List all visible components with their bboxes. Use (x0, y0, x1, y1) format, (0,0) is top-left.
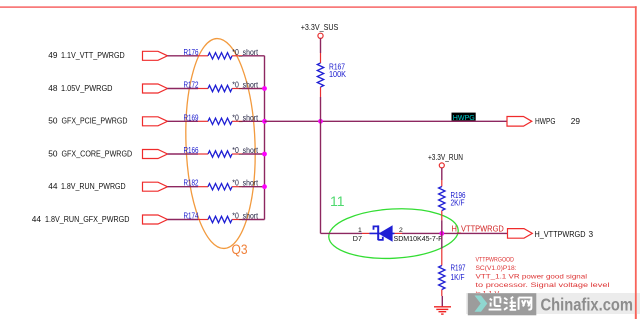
svg-text:50: 50 (48, 148, 58, 158)
port 44 1.8V_RUN_GFX_PWRGD (32, 214, 168, 224)
orange annotation ellipse Q3 (182, 37, 258, 257)
port 48 1.05V_PWRGD (48, 83, 167, 93)
svg-text:R172: R172 (184, 80, 199, 90)
wire row2 left (168, 88, 199, 90)
wire row5 left (168, 186, 199, 188)
svg-text:100K: 100K (329, 69, 346, 79)
wire row1 left (168, 55, 199, 57)
resistor R182 (184, 178, 259, 190)
svg-text:VTT_1.1 VR power good signal: VTT_1.1 VR power good signal (476, 274, 588, 281)
annotation note VTTPWRGOOD (red text) (476, 257, 611, 298)
resistor R166 (184, 145, 259, 157)
power +3.3V_RUN (428, 152, 463, 168)
wire row1 to bus (242, 55, 265, 57)
junction bus row3 (262, 119, 267, 124)
svg-text:1.05V_PWRGD: 1.05V_PWRGD (61, 83, 113, 93)
port 49 1.1V_VTT_PWRGD (48, 50, 167, 60)
net label HWPG (highlighted) (452, 113, 476, 122)
wire vertical from junction to diode row (320, 121, 322, 233)
green annotation ellipse around D7 (328, 193, 460, 262)
watermark chinafix (466, 293, 640, 319)
svg-text:H_VTTPWRGD: H_VTTPWRGD (452, 225, 505, 234)
wire R167 to junction (320, 97, 322, 121)
svg-text:44: 44 (48, 181, 58, 191)
resistor R176 (184, 47, 259, 59)
svg-text:R182: R182 (184, 178, 199, 188)
wire RUN to R196 (441, 168, 443, 180)
svg-text:48: 48 (48, 83, 58, 93)
diode D7 SDM10K45-7-F (353, 225, 443, 243)
svg-text:SC(V1.0)P18:: SC(V1.0)P18: (476, 265, 517, 272)
wire row4 to bus (242, 153, 265, 155)
resistor R196 2K/F (439, 180, 466, 220)
wire HWPG horizontal (265, 120, 508, 122)
svg-text:R176: R176 (184, 47, 199, 57)
svg-text:50: 50 (48, 116, 58, 126)
svg-text:44: 44 (32, 214, 42, 224)
svg-text:+3.3V_SUS: +3.3V_SUS (301, 22, 339, 32)
svg-text:29: 29 (571, 116, 581, 126)
wire row3 to bus (242, 120, 265, 122)
port HWPG 29 (507, 116, 580, 126)
junction bus row4 (262, 152, 267, 157)
svg-text:SDM10K45-7-F: SDM10K45-7-F (394, 236, 443, 243)
wire right vertical bus (264, 56, 266, 220)
svg-text:2K/F: 2K/F (451, 197, 465, 207)
resistor R169 (184, 112, 259, 124)
svg-text:GFX_PCIE_PWRGD: GFX_PCIE_PWRGD (62, 116, 128, 126)
svg-text:GFX_CORE_PWRGD: GFX_CORE_PWRGD (62, 148, 133, 158)
junction R167 / HWPG (318, 119, 323, 124)
junction bus row5 (262, 184, 267, 189)
power +3.3V_SUS (301, 22, 339, 38)
wire diode row left (321, 232, 363, 234)
wire row2 to bus (242, 88, 265, 90)
svg-text:1.8V_RUN_GFX_PWRGD: 1.8V_RUN_GFX_PWRGD (45, 214, 129, 224)
svg-text:R169: R169 (184, 112, 199, 122)
wire row3 left (168, 120, 199, 122)
svg-text:HWPG: HWPG (535, 116, 556, 126)
wire SUS to R167 (320, 38, 322, 53)
svg-text:R166: R166 (184, 145, 199, 155)
wire row5 to bus (242, 186, 265, 188)
svg-text:49: 49 (48, 50, 58, 60)
junction diode / R196 (439, 231, 444, 236)
svg-text:1.1V_VTT_PWRGD: 1.1V_VTT_PWRGD (61, 50, 125, 60)
junction bus row2 (262, 86, 267, 91)
svg-text:R174: R174 (184, 211, 199, 221)
svg-text:Q3: Q3 (232, 242, 248, 257)
svg-text:11: 11 (330, 193, 345, 209)
wire junction to R197 (441, 233, 443, 249)
wire R197 to ground (441, 296, 443, 307)
svg-text:HWPG: HWPG (453, 113, 475, 122)
wire R196 to junction (441, 220, 443, 233)
svg-text:D7: D7 (353, 234, 362, 243)
port 44 1.8V_RUN_PWRGD (48, 181, 167, 191)
wire row4 left (168, 153, 199, 155)
resistor R172 (184, 80, 259, 92)
port H_VTTPWRGD 3 (508, 229, 594, 239)
svg-text:VTTPWRGOOD: VTTPWRGOOD (476, 257, 515, 264)
svg-text:1K/F: 1K/F (451, 272, 465, 282)
svg-text:1.8V_RUN_PWRGD: 1.8V_RUN_PWRGD (61, 181, 126, 191)
port 50 GFX_CORE_PWRGD (48, 148, 167, 158)
svg-text:1: 1 (358, 227, 362, 234)
port 50 GFX_PCIE_PWRGD (48, 116, 167, 126)
svg-text:H_VTTPWRGD: H_VTTPWRGD (535, 229, 586, 239)
wire row6 to bus (242, 219, 265, 221)
svg-text:+3.3V_RUN: +3.3V_RUN (428, 152, 463, 162)
resistor R167 100K (317, 53, 346, 97)
svg-text:Chinafix.com: Chinafix.com (541, 294, 634, 314)
resistor R197 1K/F (439, 249, 466, 296)
resistor R174 (184, 211, 259, 223)
svg-text:to processor. Signal voltage l: to processor. Signal voltage level (476, 282, 611, 289)
frame top line (decorative) (0, 6, 637, 8)
wire diode to port (402, 232, 508, 234)
wire row6 left (168, 219, 199, 221)
ground (434, 307, 451, 314)
svg-text:3: 3 (589, 229, 594, 239)
